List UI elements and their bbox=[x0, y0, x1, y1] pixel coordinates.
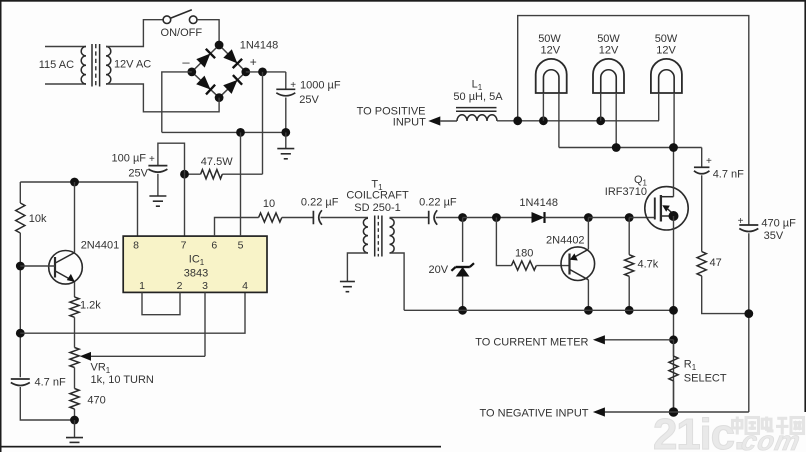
label 25V C2 bbox=[128, 168, 148, 180]
wire VCC to pin7 bbox=[184, 174, 186, 236]
wire zener lead top bbox=[462, 218, 464, 263]
svg-text:3843: 3843 bbox=[184, 268, 208, 280]
node bridge bottom bbox=[215, 93, 224, 102]
label 1N4148 2 bbox=[519, 197, 558, 209]
transistor Q2 2N4401 body bbox=[49, 250, 83, 284]
node lamp1 left bbox=[539, 116, 548, 125]
wire bottom rail bbox=[404, 309, 673, 311]
transformer TX1 secondary winding bbox=[106, 47, 111, 85]
label 180 bbox=[515, 247, 533, 259]
resistor 47.5W bbox=[201, 170, 223, 179]
wire to R1 bbox=[673, 340, 675, 356]
resistor 1.2k bbox=[70, 297, 79, 317]
node source bottom bbox=[669, 306, 678, 315]
svg-text:180: 180 bbox=[515, 247, 533, 259]
wire T1 primary to ground bbox=[347, 253, 368, 282]
label 0.22 uF 1 bbox=[301, 197, 339, 209]
node rail1 top bbox=[513, 116, 522, 125]
wire pin6 out bbox=[215, 218, 259, 237]
label 4.7 nF left bbox=[35, 376, 66, 388]
svg-text:TO CURRENT METER: TO CURRENT METER bbox=[475, 337, 588, 349]
svg-text:4.7k: 4.7k bbox=[638, 259, 659, 271]
label TO POSITIVE bbox=[357, 106, 426, 118]
label LP3 12V bbox=[656, 44, 676, 56]
transistor Q1 gate bar bbox=[654, 198, 656, 220]
transistor Q3 collector bbox=[570, 270, 589, 311]
wire L1 to lamps rail bbox=[497, 120, 659, 122]
transistor Q1 drain stub bbox=[661, 148, 674, 197]
watermark zhongguo dianziwang bbox=[733, 417, 804, 435]
wire drain rail bbox=[559, 147, 702, 149]
lamp LP2 50W 12V bbox=[593, 59, 624, 93]
svg-text:12V AC: 12V AC bbox=[114, 58, 151, 70]
wire T1 secondary bottom bbox=[390, 253, 405, 310]
label LP1 50W bbox=[538, 33, 561, 45]
svg-text:+: + bbox=[706, 156, 712, 167]
diode bridge D3 (left-bottom) bbox=[196, 76, 215, 95]
wire pin3 to wiper bbox=[204, 292, 206, 356]
label C2 plus bbox=[149, 154, 155, 165]
node current meter tap bbox=[669, 335, 678, 344]
node pin5 ground bbox=[236, 128, 245, 137]
wire lamp2 left leg bbox=[600, 93, 602, 121]
wire 47 to cap column bbox=[702, 276, 749, 314]
svg-text:20V: 20V bbox=[429, 264, 449, 276]
transistor Q1 IRF3710 body bbox=[645, 187, 688, 230]
node bridge top bbox=[215, 41, 224, 50]
label SELECT bbox=[684, 373, 727, 385]
transformer TX1 core bbox=[92, 44, 100, 87]
label C7 plus bbox=[738, 216, 744, 227]
capacitor C1 1000uF lead bbox=[285, 72, 287, 89]
label 1N4148 bridge bbox=[240, 39, 279, 51]
svg-text:0.22 µF: 0.22 µF bbox=[301, 197, 339, 209]
svg-text:5: 5 bbox=[238, 240, 244, 252]
capacitor C1 1000uF bbox=[276, 89, 295, 96]
wire vcc to C2 bbox=[158, 143, 185, 174]
svg-text:3: 3 bbox=[202, 280, 208, 292]
label 3843 bbox=[184, 268, 208, 280]
node lamp2 right bbox=[612, 143, 621, 152]
ground below C2 bbox=[149, 174, 166, 206]
label 1000 uF bbox=[300, 80, 341, 92]
switch ON/OFF bbox=[163, 10, 197, 24]
svg-text:INPUT: INPUT bbox=[393, 117, 426, 129]
label 1k 10 TURN bbox=[91, 374, 154, 386]
label R1 bbox=[684, 359, 697, 373]
label LP2 50W bbox=[597, 33, 620, 45]
label 47.5W bbox=[201, 156, 233, 168]
svg-text:4.7 nF: 4.7 nF bbox=[35, 376, 66, 388]
lamp LP1 50W 12V bbox=[536, 59, 567, 93]
wire lamp1 right leg bbox=[558, 93, 560, 148]
svg-text:ON/OFF: ON/OFF bbox=[161, 27, 203, 39]
resistor 10k bbox=[16, 203, 25, 233]
label SD 250-1 bbox=[354, 202, 400, 214]
label pin 7 bbox=[181, 240, 187, 252]
wire diode to emitter node bbox=[545, 217, 589, 219]
svg-text:10k: 10k bbox=[29, 213, 47, 225]
wire vref rail pin8 bbox=[20, 182, 137, 236]
label pin 2 bbox=[177, 280, 183, 292]
wire secondary top to switch bbox=[106, 20, 163, 47]
wire 10 to cap bbox=[282, 217, 314, 219]
ground bottom left bbox=[66, 420, 83, 442]
label 470 bbox=[87, 395, 105, 407]
label 115 AC bbox=[39, 59, 74, 71]
label 47 bbox=[710, 257, 722, 269]
wire pin5 to ground rail bbox=[240, 132, 242, 236]
node bridge right bbox=[241, 68, 250, 77]
node left divider bbox=[16, 329, 25, 338]
wire lamp1 left leg bbox=[542, 93, 544, 121]
label LP1 12V bbox=[541, 44, 561, 56]
node bridge left bbox=[187, 68, 196, 77]
label TO CURRENT METER bbox=[475, 337, 588, 349]
label TO NEGATIVE INPUT bbox=[480, 408, 589, 420]
op-amp U1 IC1 3843 body bbox=[123, 236, 267, 292]
wire left rail mid bbox=[19, 233, 21, 377]
diode bridge D4 (bottom-right) bbox=[223, 75, 242, 94]
resistor 10 bbox=[259, 213, 282, 222]
arrow current meter bbox=[593, 335, 605, 344]
node base bbox=[16, 262, 25, 271]
node 180 tap bbox=[492, 213, 501, 222]
svg-text:12V: 12V bbox=[599, 44, 619, 56]
resistor 180 bbox=[511, 261, 536, 270]
label pin 5 bbox=[238, 240, 244, 252]
transistor Q1 body arrow bbox=[662, 205, 672, 213]
wire current meter line bbox=[605, 339, 674, 341]
svg-text:470 µF: 470 µF bbox=[761, 218, 796, 230]
capacitor C7 470uF bbox=[739, 225, 758, 232]
transformer T1 right winding bbox=[390, 218, 395, 253]
svg-text:TO NEGATIVE INPUT: TO NEGATIVE INPUT bbox=[480, 408, 589, 420]
wire T1 secondary top bbox=[390, 217, 429, 219]
node VCC bbox=[180, 170, 189, 179]
wire cap2 to zener node bbox=[436, 217, 463, 219]
svg-text:+: + bbox=[250, 55, 257, 69]
arrow negative input bbox=[593, 407, 605, 416]
wire base lead Q2 bbox=[20, 265, 55, 267]
svg-text:10: 10 bbox=[263, 198, 275, 210]
transistor Q2 emitter bbox=[55, 271, 75, 282]
wiper arrow VR1 bbox=[80, 352, 205, 361]
wire lamp3 right leg bbox=[673, 93, 675, 148]
node 4.7k top bbox=[625, 213, 634, 222]
svg-text:1N4148: 1N4148 bbox=[519, 197, 558, 209]
wire zener node to diode bbox=[463, 217, 532, 219]
wire zener lead bottom bbox=[462, 277, 464, 311]
resistor R1 bbox=[669, 356, 678, 381]
label 10k bbox=[29, 213, 47, 225]
transistor Q1 channel bar bbox=[660, 195, 662, 222]
label 20V bbox=[429, 264, 449, 276]
wire divider to pin4 bbox=[20, 292, 245, 333]
capacitor C3 4.7nF bbox=[11, 379, 30, 386]
wire bottom right corner bbox=[674, 411, 749, 413]
svg-text:+: + bbox=[149, 154, 155, 165]
svg-text:470: 470 bbox=[87, 395, 105, 407]
wire ground rail bbox=[162, 131, 286, 133]
transistor Q3 2N4402 body bbox=[561, 247, 595, 281]
wire 180 to base bbox=[536, 265, 569, 267]
label plus bbox=[250, 55, 257, 69]
wire 4.7k bottom lead bbox=[628, 276, 630, 310]
wire switch to bridge top bbox=[197, 20, 219, 41]
node C1 ground bbox=[281, 128, 290, 137]
label LP3 50W bbox=[655, 33, 678, 45]
svg-text:100 µF: 100 µF bbox=[112, 153, 147, 165]
node bottom left ground bbox=[70, 416, 79, 425]
ground below C1 bbox=[277, 132, 294, 158]
label 0.22 uF 2 bbox=[419, 197, 457, 209]
node emitter 4402 bbox=[584, 213, 593, 222]
wire resistor to vcc node bbox=[185, 173, 201, 175]
wire bridge minus down bbox=[162, 72, 192, 132]
wire top rail bbox=[518, 16, 749, 225]
label minus bbox=[182, 55, 190, 70]
svg-text:47.5W: 47.5W bbox=[201, 156, 233, 168]
wire plus feed down bbox=[262, 72, 264, 174]
wire negative line bbox=[605, 411, 674, 413]
diode bridge D1 (left-top) bbox=[196, 49, 215, 68]
svg-text:12V: 12V bbox=[656, 44, 676, 56]
capacitor C6 4.7nF bbox=[694, 167, 710, 174]
transistor Q3 base bar bbox=[568, 254, 570, 275]
label COILCRAFT bbox=[346, 190, 409, 202]
resistor 4.7k bbox=[625, 255, 634, 277]
zener D2 20V bbox=[451, 263, 474, 276]
arrow positive input bbox=[428, 116, 440, 125]
diode bridge D2 (top-right) bbox=[223, 49, 242, 68]
resistor 470 bbox=[70, 389, 79, 410]
node lamp2 left bbox=[596, 116, 605, 125]
watermark .com script bbox=[739, 425, 804, 452]
label 2N4401 bbox=[81, 240, 120, 252]
svg-text:8: 8 bbox=[133, 240, 139, 252]
label 4.7k bbox=[638, 259, 659, 271]
wire bridge diamond bbox=[192, 45, 246, 98]
svg-text:115 AC: 115 AC bbox=[39, 59, 74, 71]
label pin 1 bbox=[139, 280, 145, 292]
node collector bbox=[70, 178, 79, 187]
capacitor C4 0.22uF bbox=[313, 210, 322, 225]
wire C3 bottom bbox=[20, 387, 74, 420]
label pin 8 bbox=[133, 240, 139, 252]
wire emitter node to 4.7k bbox=[588, 217, 629, 219]
wire C7 down bbox=[748, 233, 750, 412]
svg-text:0.22 µF: 0.22 µF bbox=[419, 197, 457, 209]
transformer T1 left winding bbox=[363, 218, 368, 253]
capacitor C2 100uF bbox=[148, 166, 167, 173]
label C6 plus bbox=[706, 156, 712, 167]
diode D3 1N4148 bbox=[532, 212, 545, 223]
svg-text:1000 µF: 1000 µF bbox=[300, 80, 341, 92]
label 100 uF bbox=[112, 153, 147, 165]
node 4.7k bottom bbox=[625, 306, 634, 315]
svg-text:1k, 10 TURN: 1k, 10 TURN bbox=[91, 374, 154, 386]
label IC1 bbox=[189, 254, 205, 268]
label 10 bbox=[263, 198, 275, 210]
ground T1 bbox=[340, 282, 355, 292]
wire C6 to 47 bbox=[701, 175, 703, 251]
svg-text:COILCRAFT: COILCRAFT bbox=[346, 190, 409, 202]
wire left rail upper bbox=[19, 182, 21, 203]
label 25V C1 bbox=[299, 94, 319, 106]
label C1 plus bbox=[290, 80, 296, 91]
svg-text:21ic.: 21ic. bbox=[653, 410, 745, 452]
label 12V AC bbox=[114, 58, 151, 70]
wire 4.7k top lead bbox=[628, 218, 630, 255]
label 35V bbox=[764, 230, 784, 242]
wire rail2 to C6 bbox=[701, 148, 703, 168]
svg-text:1N4148: 1N4148 bbox=[240, 39, 279, 51]
wire feed to resistor bbox=[222, 173, 262, 175]
label 1.2k bbox=[80, 300, 101, 312]
label 2N4402 bbox=[546, 235, 585, 247]
svg-text:25V: 25V bbox=[299, 94, 319, 106]
svg-text:2N4402: 2N4402 bbox=[546, 235, 585, 247]
wire C1 to ground rail bbox=[285, 98, 287, 133]
wire cap to T1 bbox=[321, 217, 369, 219]
label L1 bbox=[472, 78, 483, 92]
transformer T1 core bbox=[375, 216, 382, 257]
svg-text:12V: 12V bbox=[541, 44, 561, 56]
svg-text:4: 4 bbox=[242, 280, 248, 292]
wire R1 down bbox=[673, 381, 675, 412]
svg-text:1: 1 bbox=[139, 280, 145, 292]
node zener top bbox=[458, 213, 467, 222]
label Q1 bbox=[634, 174, 648, 188]
wire 470 to gnd node bbox=[74, 409, 76, 420]
node negative join bbox=[669, 407, 679, 417]
svg-text:47: 47 bbox=[710, 257, 722, 269]
svg-text:+: + bbox=[290, 80, 296, 91]
label INPUT bbox=[393, 117, 426, 129]
label pin 3 bbox=[202, 280, 208, 292]
svg-text:–: – bbox=[182, 55, 190, 70]
node Q1 source bbox=[669, 211, 679, 221]
wire bridge plus rail bbox=[246, 71, 286, 73]
wire primary top lead bbox=[45, 46, 86, 48]
svg-text:7: 7 bbox=[181, 240, 187, 252]
svg-text:SD 250-1: SD 250-1 bbox=[354, 202, 400, 214]
transistor Q2 base bar bbox=[54, 257, 56, 278]
wire VR1 to 470 bbox=[74, 368, 76, 389]
wire tap down to 180 bbox=[496, 218, 511, 266]
node drain bbox=[669, 143, 678, 152]
svg-text:50W: 50W bbox=[538, 33, 561, 45]
label IRF3710 bbox=[605, 186, 647, 198]
watermark 21ic bbox=[653, 410, 745, 452]
inductor L1 bbox=[456, 108, 497, 121]
label LP2 12V bbox=[599, 44, 619, 56]
transformer TX1 primary winding bbox=[81, 47, 86, 85]
label pin 4 bbox=[242, 280, 248, 292]
transistor Q3 emitter bbox=[570, 218, 589, 261]
node 47 join bbox=[744, 309, 753, 318]
label 470 uF bbox=[761, 218, 796, 230]
wire lamp3 left leg bbox=[658, 93, 660, 121]
label 50uH 5A bbox=[453, 91, 503, 103]
lamp LP3 50W 12V bbox=[651, 59, 682, 93]
resistor 47 bbox=[697, 252, 706, 276]
svg-text:+: + bbox=[738, 216, 744, 227]
node collector 4402 bbox=[584, 306, 593, 315]
capacitor C5 0.22uF bbox=[429, 210, 438, 225]
wire pins 1-2 link bbox=[142, 292, 180, 314]
node zener bottom bbox=[458, 306, 467, 315]
svg-text:50 µH, 5A: 50 µH, 5A bbox=[453, 91, 503, 103]
wire emitter down bbox=[74, 282, 76, 297]
svg-text:25V: 25V bbox=[128, 168, 148, 180]
wire arrow to L1 bbox=[440, 120, 457, 122]
node plus feed bbox=[258, 68, 267, 77]
svg-text:50W: 50W bbox=[597, 33, 620, 45]
svg-text:6: 6 bbox=[211, 240, 217, 252]
label ON/OFF bbox=[161, 27, 203, 39]
potentiometer VR1 bbox=[70, 348, 79, 368]
wire emitter to VR1 bbox=[74, 317, 76, 347]
transistor Q1 source stub bbox=[661, 215, 674, 217]
svg-text:50W: 50W bbox=[655, 33, 678, 45]
label 4.7 nF right bbox=[713, 169, 744, 181]
svg-text:2N4401: 2N4401 bbox=[81, 240, 120, 252]
svg-text:1.2k: 1.2k bbox=[80, 300, 101, 312]
transistor Q2 collector bbox=[55, 182, 74, 263]
wire source column bbox=[673, 216, 675, 412]
wire bridge bottom return bbox=[106, 84, 219, 112]
wire primary bottom lead bbox=[45, 83, 86, 85]
wire lamp2 right leg bbox=[615, 93, 617, 148]
svg-text:com: com bbox=[739, 425, 804, 452]
svg-text:4.7 nF: 4.7 nF bbox=[713, 169, 744, 181]
wire 4.7k node to gate bbox=[629, 217, 655, 219]
svg-text:SELECT: SELECT bbox=[684, 373, 727, 385]
label pin 6 bbox=[211, 240, 217, 252]
svg-text:IRF3710: IRF3710 bbox=[605, 186, 647, 198]
svg-text:2: 2 bbox=[177, 280, 183, 292]
label VR1 bbox=[91, 362, 111, 376]
label T1 bbox=[371, 179, 383, 193]
svg-text:35V: 35V bbox=[764, 230, 784, 242]
